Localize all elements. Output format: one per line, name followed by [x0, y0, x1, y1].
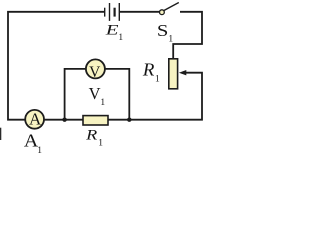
svg-text:1: 1 [155, 75, 160, 85]
svg-text:1: 1 [98, 139, 103, 149]
svg-text:R: R [142, 60, 155, 80]
svg-text:R: R [85, 127, 97, 143]
svg-text:V: V [89, 64, 101, 81]
svg-text:1: 1 [118, 33, 123, 43]
svg-text:A: A [29, 110, 42, 129]
svg-text:E: E [104, 23, 118, 39]
svg-text:1: 1 [168, 34, 173, 44]
svg-text:S: S [157, 21, 169, 40]
svg-text:1: 1 [100, 98, 105, 108]
svg-text:V: V [89, 84, 101, 103]
svg-text:1: 1 [37, 146, 42, 154]
